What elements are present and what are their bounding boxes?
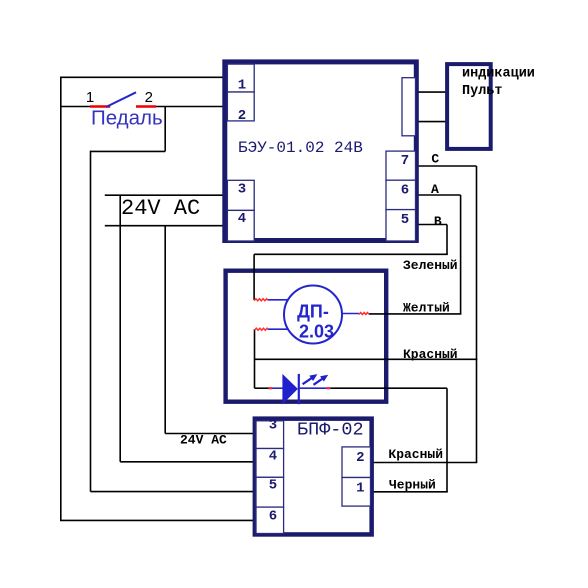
U1 pin 1 box [227, 64, 254, 92]
BPF pin 3 box [256, 421, 284, 449]
wire: yellow lead horizontal [369, 313, 461, 315]
svg-text:Красный: Красный [403, 347, 458, 362]
wire: BPF pin 6 horizontal [60, 519, 254, 521]
wire: vertical to BPF pin 5 [90, 151, 92, 492]
DP sensor right blue lead [342, 313, 359, 315]
BPF pin 4 box [256, 449, 284, 478]
wire: green lead horizontal [254, 253, 448, 255]
wire: BPF pin 4 horizontal [120, 461, 254, 463]
wire: black lead vertical [446, 388, 448, 492]
wire: branch down from switch wire [164, 107, 166, 152]
LED D1 anode wire black [255, 387, 269, 389]
wire: red lead horizontal (Krasny) [255, 358, 478, 360]
wire: left vertical bus (node 1) [60, 77, 62, 521]
switch S1 terminal 1 red contact [90, 105, 110, 108]
wire: node1 top horizontal to BEU pin 1 [61, 76, 225, 78]
svg-text:4: 4 [238, 211, 246, 227]
wire: BEU to indicator panel upper [416, 91, 446, 93]
U1 pin 2 box [227, 92, 254, 121]
svg-text:4: 4 [269, 449, 277, 465]
svg-text:В: В [434, 214, 442, 229]
DP sensor blue lead lower [268, 328, 288, 330]
svg-text:3: 3 [269, 418, 277, 434]
wire: BEU to indicator panel lower [416, 121, 446, 123]
LED D1 cathode blue lead [299, 387, 327, 389]
LED D1 emission arrow 2 [314, 375, 329, 385]
svg-text:6: 6 [269, 508, 277, 524]
svg-text:БПФ-02: БПФ-02 [297, 420, 364, 441]
svg-text:Черный: Черный [389, 478, 436, 493]
wire: green lead vertical into DP sensor [253, 254, 255, 299]
svg-text:БЭУ-01.02 24В: БЭУ-01.02 24В [238, 139, 363, 157]
U1 pin 5 box [386, 210, 416, 241]
U1 pin 6 box [386, 180, 416, 209]
wire: switch feed from left bus [61, 106, 91, 108]
svg-text:Красный: Красный [388, 447, 443, 462]
svg-text:C: C [431, 152, 439, 167]
svg-text:5: 5 [401, 212, 409, 228]
wire: BPF pin 5 horizontal [91, 491, 255, 493]
switch S1 terminal 2 red contact [136, 105, 156, 108]
DP sensor circle [284, 286, 342, 344]
wire: vertical from upper 24V wire to BPF pin 4 [119, 195, 121, 462]
LED D1 cathode red bit [327, 387, 330, 389]
svg-text:2.03: 2.03 [299, 322, 334, 342]
DP sensor red stub upper [254, 299, 268, 301]
wire: B vertical short drop [446, 225, 448, 255]
svg-text:1: 1 [86, 89, 94, 106]
block indicator panel box [447, 64, 491, 149]
LED D1 anode blue lead [272, 387, 283, 389]
svg-text:5: 5 [269, 477, 277, 493]
svg-text:Зеленый: Зеленый [403, 258, 458, 273]
DP sensor red stub lower [255, 328, 269, 330]
LED D1 cathode bar [298, 374, 300, 404]
LED D1 triangle [282, 374, 298, 404]
wire: A vertical down to yellow lead [460, 195, 462, 314]
LED D1 emission arrow 1 [303, 374, 318, 384]
wire: 24V AC lower feed to BEU pin 4 [105, 225, 225, 227]
svg-text:Педаль: Педаль [91, 107, 163, 130]
DP sensor right red stub [359, 313, 369, 315]
U1 pin 3 box [227, 180, 254, 210]
svg-text:6: 6 [401, 183, 409, 199]
wire: switch terminal 2 to BEU pin 2 [156, 106, 225, 108]
wire: vertical from lower 24V wire to BPF pin 3 [164, 226, 166, 434]
svg-text:2: 2 [356, 450, 364, 466]
wire: LED cathode black run to the right [330, 387, 447, 389]
wire: BEU pin 5 (B) horizontal [417, 224, 447, 226]
U1 aux pin box (panel connector) [402, 78, 416, 136]
BPF pin 6 box [256, 507, 284, 533]
BPF right pin 2 box [342, 447, 371, 478]
svg-text:1: 1 [238, 78, 246, 94]
wire: jog left under Pedal [91, 150, 166, 152]
BPF pin 5 box [256, 477, 284, 507]
svg-text:2: 2 [238, 108, 246, 124]
svg-text:Желтый: Желтый [403, 300, 450, 315]
svg-text:7: 7 [401, 153, 409, 169]
BPF right pin 1 box [342, 478, 371, 507]
wire: DP sensor lower stub vertical [254, 329, 256, 388]
wire: C vertical down to BPF pin 2 [476, 166, 478, 463]
block U1 BEU-01.02 24V outer box [225, 62, 416, 241]
svg-text:Пульт: Пульт [462, 84, 503, 99]
block DP-2.03 sensor outer box [226, 271, 387, 402]
svg-text:A: A [431, 182, 439, 197]
U1 pin 7 box [386, 151, 416, 180]
svg-text:24V AC: 24V AC [180, 433, 227, 448]
wire: BPF pin 3 horizontal [165, 433, 254, 435]
switch S1 blade [106, 92, 136, 107]
wire: BPF pin 2 horizontal (red lead) [371, 462, 477, 464]
svg-text:ДП-: ДП- [297, 301, 329, 321]
block BPF-02 outer box [255, 419, 372, 535]
svg-text:1: 1 [356, 481, 364, 497]
wire: BEU pin 6 (A) horizontal [417, 194, 461, 196]
wire: BPF pin 1 horizontal (black lead) [371, 491, 448, 493]
svg-text:3: 3 [238, 182, 246, 198]
DP sensor blue lead upper [268, 299, 288, 301]
svg-text:24V AC: 24V AC [121, 196, 200, 221]
svg-text:2: 2 [145, 89, 153, 106]
svg-text:индикации: индикации [462, 66, 535, 81]
wire: 24V AC upper feed to BEU pin 3 [105, 194, 225, 196]
U1 pin 4 box [227, 210, 254, 241]
LED D1 anode red bit [269, 387, 272, 389]
wire: BEU pin 7 (C) horizontal [417, 165, 477, 167]
